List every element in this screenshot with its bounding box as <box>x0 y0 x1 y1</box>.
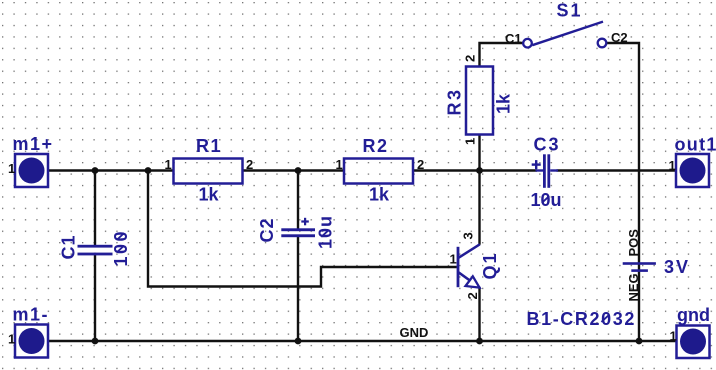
svg-text:1: 1 <box>450 252 457 267</box>
svg-text:C1: C1 <box>505 31 522 46</box>
svg-text:1: 1 <box>669 158 676 173</box>
svg-text:gnd: gnd <box>677 305 710 325</box>
junction top rail at C2 <box>295 167 302 174</box>
wire bottom rail m1- to gnd <box>47 340 677 342</box>
slashed zero of 2032 <box>601 315 608 322</box>
slashed zeros of 100 <box>117 246 124 253</box>
capacitor C3 <box>531 135 562 211</box>
resistor R1 <box>165 136 254 205</box>
junction bottom rail at C1 <box>92 338 99 345</box>
junction bottom rail at battery <box>636 338 643 345</box>
svg-text:GND: GND <box>400 325 429 340</box>
wire Q1 collector <box>478 171 480 245</box>
svg-text:2: 2 <box>246 157 253 172</box>
wire top rail R1 to R2 <box>243 169 345 171</box>
svg-text:1k: 1k <box>494 93 514 114</box>
junction bottom rail at Q1 emitter <box>476 338 483 345</box>
svg-text:3V: 3V <box>664 257 690 277</box>
junction bottom rail at C2 <box>295 338 302 345</box>
resistor R2 <box>336 136 425 205</box>
switch S1 <box>505 1 628 48</box>
svg-text:1: 1 <box>463 138 478 145</box>
wire C2 branch upper <box>297 171 299 230</box>
wire Q1 emitter to bottom rail <box>478 287 480 341</box>
svg-text:1: 1 <box>336 157 343 172</box>
svg-text:R3: R3 <box>445 87 465 115</box>
svg-text:1k: 1k <box>199 185 220 205</box>
wire C2 branch lower <box>297 237 299 342</box>
terminal m1+ <box>8 134 54 187</box>
wire switch C2 to right vertical <box>607 43 640 263</box>
svg-text:B1-CR2032: B1-CR2032 <box>527 309 636 329</box>
slashed zero of 10u <box>321 230 328 237</box>
resistor R3 <box>445 55 514 145</box>
terminal gnd <box>670 305 711 358</box>
svg-text:POS: POS <box>626 229 641 257</box>
svg-text:m1-: m1- <box>13 305 50 325</box>
wire R3 bottom pin <box>478 135 480 171</box>
svg-text:C1: C1 <box>59 234 79 259</box>
wire top rail C3 to out1 <box>557 169 677 171</box>
terminal out1 <box>669 135 716 188</box>
svg-text:NEG: NEG <box>626 273 641 301</box>
svg-text:R2: R2 <box>363 136 389 156</box>
wire top rail m1+ to R1 <box>47 169 174 171</box>
svg-text:1: 1 <box>8 332 15 347</box>
svg-text:Q1: Q1 <box>480 251 500 279</box>
svg-text:2: 2 <box>465 292 480 299</box>
svg-text:S1: S1 <box>557 1 583 21</box>
slashed zero of 10u <box>542 196 549 203</box>
svg-text:1: 1 <box>670 329 677 344</box>
svg-text:C3: C3 <box>534 135 561 155</box>
svg-text:2: 2 <box>417 157 424 172</box>
svg-text:2: 2 <box>463 55 478 62</box>
capacitor C2 <box>257 215 336 249</box>
capacitor C1 <box>59 229 132 267</box>
junction top rail at base branch <box>145 167 152 174</box>
svg-text:C2: C2 <box>257 217 277 242</box>
svg-text:1k: 1k <box>369 185 390 205</box>
terminal m1- <box>8 305 49 358</box>
svg-text:1: 1 <box>8 161 15 176</box>
battery B1 <box>527 229 691 329</box>
wire C1 branch lower <box>94 253 96 341</box>
svg-text:m1+: m1+ <box>13 134 54 154</box>
wire base drive branch <box>148 171 457 287</box>
svg-text:C2: C2 <box>611 30 628 45</box>
wire top rail R2 to C3 <box>413 169 537 171</box>
wire battery to bottom rail <box>638 264 640 341</box>
svg-text:1: 1 <box>165 157 172 172</box>
transistor Q1 <box>450 232 501 299</box>
wire R3 top pin to switch <box>480 43 524 67</box>
svg-text:R1: R1 <box>196 136 222 156</box>
svg-text:3: 3 <box>461 232 476 239</box>
junction top rail at R3/Q1 <box>476 167 483 174</box>
wire C1 branch upper <box>94 171 96 246</box>
junction top rail at C1 <box>92 167 99 174</box>
svg-text:out1: out1 <box>675 135 716 155</box>
